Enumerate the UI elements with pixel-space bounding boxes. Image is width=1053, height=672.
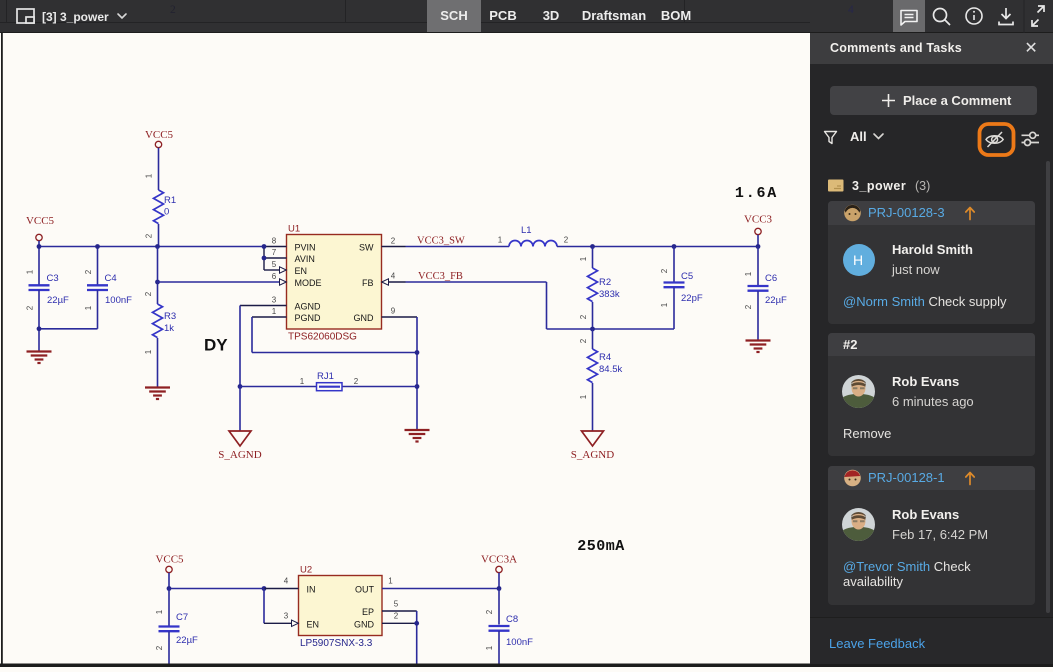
svg-text:3: 3 <box>284 611 289 620</box>
svg-text:VCC5: VCC5 <box>26 215 55 227</box>
svg-text:EN: EN <box>295 266 308 276</box>
svg-text:84.5k: 84.5k <box>599 364 622 375</box>
svg-text:C5: C5 <box>681 271 693 282</box>
svg-text:2: 2 <box>84 269 93 274</box>
svg-text:C8: C8 <box>506 614 518 625</box>
svg-text:VCC3A: VCC3A <box>481 554 517 566</box>
svg-text:2: 2 <box>564 236 569 245</box>
svg-text:IN: IN <box>307 585 316 595</box>
svg-text:C6: C6 <box>765 273 777 284</box>
svg-text:2: 2 <box>394 612 399 621</box>
svg-text:1: 1 <box>144 349 153 354</box>
svg-text:R4: R4 <box>599 352 611 363</box>
svg-text:2: 2 <box>155 645 164 650</box>
svg-text:GND: GND <box>354 313 375 323</box>
svg-text:1: 1 <box>744 271 753 276</box>
svg-text:H: H <box>853 252 863 268</box>
svg-text:1: 1 <box>145 173 154 178</box>
svg-text:VCC3_SW: VCC3_SW <box>417 236 465 247</box>
svg-text:383k: 383k <box>599 289 620 300</box>
svg-text:VCC5: VCC5 <box>145 129 174 141</box>
svg-text:2: 2 <box>579 338 588 343</box>
svg-text:4: 4 <box>284 577 289 586</box>
svg-text:1: 1 <box>300 377 305 386</box>
svg-text:1: 1 <box>272 307 277 316</box>
svg-text:TPS62060DSG: TPS62060DSG <box>288 332 357 343</box>
svg-text:C4: C4 <box>105 273 117 284</box>
svg-text:L1: L1 <box>521 225 532 236</box>
svg-text:U2: U2 <box>300 565 312 576</box>
svg-text:EN: EN <box>307 619 320 629</box>
svg-text:C7: C7 <box>176 612 188 623</box>
svg-text:1: 1 <box>155 609 164 614</box>
svg-text:0: 0 <box>164 207 169 218</box>
svg-text:2: 2 <box>391 237 396 246</box>
svg-text:1: 1 <box>660 302 669 307</box>
svg-text:100nF: 100nF <box>506 637 533 648</box>
svg-text:1: 1 <box>579 256 588 261</box>
svg-text:FB: FB <box>362 278 374 288</box>
svg-text:OUT: OUT <box>355 585 375 595</box>
svg-text:DY: DY <box>204 336 228 355</box>
svg-text:2: 2 <box>26 305 35 310</box>
svg-text:1: 1 <box>498 236 503 245</box>
svg-text:1k: 1k <box>164 323 174 334</box>
svg-text:100nF: 100nF <box>105 295 132 306</box>
svg-text:MODE: MODE <box>295 278 322 288</box>
svg-text:1: 1 <box>485 645 494 650</box>
svg-text:3: 3 <box>272 296 277 305</box>
svg-text:2: 2 <box>744 304 753 309</box>
svg-text:R1: R1 <box>164 195 176 206</box>
svg-text:2: 2 <box>485 609 494 614</box>
svg-text:S_AGND: S_AGND <box>218 449 261 461</box>
svg-text:9: 9 <box>391 307 396 316</box>
svg-text:LP5907SNX-3.3: LP5907SNX-3.3 <box>300 638 373 649</box>
svg-text:U1: U1 <box>288 224 300 235</box>
svg-text:VCC3: VCC3 <box>744 214 773 226</box>
svg-text:GND: GND <box>354 619 375 629</box>
svg-text:SW: SW <box>359 243 374 253</box>
svg-text:RJ1: RJ1 <box>317 371 334 382</box>
svg-text:1.6A: 1.6A <box>735 185 778 202</box>
svg-text:1: 1 <box>84 305 93 310</box>
svg-text:PVIN: PVIN <box>295 243 316 253</box>
svg-text:6: 6 <box>272 272 277 281</box>
svg-text:2: 2 <box>354 377 359 386</box>
svg-text:5: 5 <box>272 260 277 269</box>
svg-text:2: 2 <box>660 268 669 273</box>
svg-text:22µF: 22µF <box>176 635 198 646</box>
svg-text:1: 1 <box>579 394 588 399</box>
svg-text:C3: C3 <box>47 273 59 284</box>
svg-text:2: 2 <box>579 314 588 319</box>
svg-text:AGND: AGND <box>295 302 322 312</box>
svg-text:5: 5 <box>394 600 399 609</box>
svg-text:22µF: 22µF <box>765 295 787 306</box>
svg-text:22µF: 22µF <box>47 295 69 306</box>
svg-text:8: 8 <box>272 237 277 246</box>
svg-text:PGND: PGND <box>295 313 322 323</box>
svg-text:AVIN: AVIN <box>295 254 315 264</box>
svg-text:R2: R2 <box>599 277 611 288</box>
svg-text:1: 1 <box>388 577 393 586</box>
svg-text:R3: R3 <box>164 311 176 322</box>
svg-text:VCC5: VCC5 <box>155 554 184 566</box>
svg-text:4: 4 <box>391 272 396 281</box>
svg-text:1: 1 <box>26 269 35 274</box>
svg-text:EP: EP <box>362 607 374 617</box>
svg-text:250mA: 250mA <box>577 538 625 555</box>
svg-text:VCC3_FB: VCC3_FB <box>418 271 463 282</box>
svg-text:S_AGND: S_AGND <box>571 449 614 461</box>
svg-text:7: 7 <box>272 248 277 257</box>
svg-text:2: 2 <box>145 233 154 238</box>
svg-text:22pF: 22pF <box>681 293 703 304</box>
svg-text:2: 2 <box>144 291 153 296</box>
